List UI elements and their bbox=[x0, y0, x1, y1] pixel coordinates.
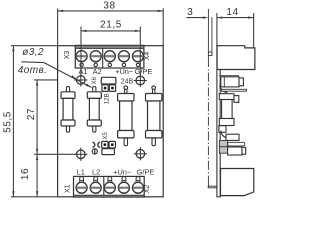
jumper X6 pin 2 bbox=[109, 85, 115, 92]
terminal block X3/X4 side view bbox=[217, 46, 255, 70]
capacitor side view bottom cap bbox=[219, 119, 234, 126]
dimension 14 right extension line bbox=[253, 13, 255, 48]
small rect below cap bbox=[219, 126, 226, 133]
terminal screw X1/X2 pin 3 bbox=[104, 182, 115, 193]
fuse F4 body bbox=[148, 101, 160, 131]
DIN rail top flange bbox=[211, 17, 213, 55]
svg-text:ø3,2: ø3,2 bbox=[22, 47, 44, 58]
dimension 55,5 extension lines bbox=[11, 45, 58, 47]
dimension 21,5 line bbox=[81, 30, 140, 32]
svg-text:A1: A1 bbox=[78, 67, 87, 76]
relay/cap cluster side view upper bbox=[219, 75, 239, 77]
svg-text:12В: 12В bbox=[103, 93, 110, 104]
dimension 16 line bbox=[36, 154, 38, 197]
mounting hole top-right (3.2mm) bbox=[136, 76, 145, 85]
PCB edge (side view) bbox=[217, 46, 220, 197]
fuse F4 top lead bbox=[152, 86, 156, 90]
wire entry notch X1/X2 pin 1 bbox=[80, 177, 84, 181]
DIN rail centerline (dash-dot) bbox=[207, 9, 209, 58]
fuse F1 body bbox=[63, 98, 73, 120]
fuse F3 bottom cap bbox=[118, 131, 134, 138]
svg-text:A2: A2 bbox=[93, 67, 102, 76]
svg-text:4отв.: 4отв. bbox=[18, 65, 47, 76]
fuse F4 bottom cap bbox=[146, 131, 162, 138]
svg-text:+Un−: +Un− bbox=[115, 67, 133, 76]
terminal block X3/X4 body bbox=[75, 45, 144, 68]
terminal screw X1/X2 pin 5 bbox=[133, 182, 144, 193]
mounting hole top-left (3.2mm) bbox=[77, 76, 86, 85]
dimension 21,5 extension lines bbox=[80, 27, 82, 77]
leader line for hole callout bbox=[21, 62, 91, 88]
mounting hole bottom-right (3.2mm) bbox=[136, 150, 145, 159]
terminal screw X1/X2 pin 1 bbox=[76, 182, 87, 193]
dimension 55,5 line bbox=[12, 46, 14, 197]
terminal screw X3/X4 pin 2 bbox=[90, 51, 101, 62]
svg-text:X6: X6 bbox=[91, 76, 98, 84]
wire entry notch X1/X2 pin 2 bbox=[94, 177, 98, 181]
dimension 38 extension lines bbox=[57, 8, 59, 45]
fuse F2 bottom lead bbox=[93, 126, 96, 132]
solder hole below pin 2 bbox=[94, 63, 97, 66]
capacitor side view top cap bbox=[219, 94, 234, 100]
solder hole below pin 3 bbox=[108, 63, 111, 66]
dimension 3 line bbox=[187, 17, 203, 19]
svg-text:G/PE: G/PE bbox=[135, 67, 153, 76]
wire entry notch X1/X2 pin 5 bbox=[136, 177, 140, 181]
wire entry notch X1/X2 pin 4 bbox=[122, 177, 126, 181]
lower strut arc bbox=[221, 131, 228, 138]
svg-text:+Un−: +Un− bbox=[113, 167, 131, 176]
svg-text:21,5: 21,5 bbox=[100, 20, 122, 31]
mounting hole bottom-left (3.2mm) bbox=[77, 150, 86, 159]
long pin bar bbox=[222, 89, 247, 91]
terminal screw X3/X4 pin 5 bbox=[133, 51, 144, 62]
svg-text:27: 27 bbox=[26, 108, 37, 120]
fuse F4 bottom lead bbox=[152, 138, 155, 146]
fuse F1 bottom cap bbox=[61, 120, 75, 126]
svg-text:14: 14 bbox=[226, 7, 238, 18]
fuse F1 top lead bbox=[66, 87, 69, 93]
svg-text:G/PE: G/PE bbox=[137, 167, 155, 176]
terminal screw X3/X4 pin 4 bbox=[118, 51, 129, 62]
thin pin bar lower bbox=[228, 142, 245, 146]
terminal block X1/X2 divider bbox=[103, 176, 105, 195]
svg-text:L1: L1 bbox=[77, 167, 85, 176]
fuse F3 top lead bbox=[124, 86, 128, 90]
svg-text:X4: X4 bbox=[144, 52, 151, 61]
terminal screw X1/X2 pin 4 bbox=[118, 182, 129, 193]
fuse F1 bottom lead bbox=[66, 126, 69, 132]
solder hole below pin 5 bbox=[136, 63, 139, 66]
jumper X6 pin 1 bbox=[102, 85, 108, 92]
terminal screw X3/X4 pin 1 bbox=[76, 51, 87, 62]
small box right of cap bbox=[234, 96, 239, 103]
terminal block X1/X2 side view bbox=[221, 169, 254, 196]
dimension 27 extension line bbox=[34, 79, 57, 81]
terminal screw X3/X4 pin 3 bbox=[104, 51, 115, 62]
fuse F3 top cap bbox=[118, 94, 134, 102]
gray connector blocks bbox=[219, 141, 227, 147]
svg-text:24В: 24В bbox=[121, 79, 134, 86]
jumper X5 cap (parked) bbox=[102, 149, 115, 155]
fuse side view bbox=[228, 147, 242, 155]
terminal screw X1/X2 pin 2 bbox=[90, 182, 101, 193]
svg-text:55,5: 55,5 bbox=[3, 111, 14, 133]
fuse F3 body bbox=[120, 101, 132, 131]
shared extension line at bottom holes bbox=[34, 153, 77, 155]
svg-text:X3: X3 bbox=[64, 51, 71, 60]
terminal block X3/X4 divider bbox=[102, 45, 104, 68]
solder hole below pin 4 bbox=[122, 63, 125, 66]
svg-text:X1: X1 bbox=[64, 184, 71, 193]
svg-text:3: 3 bbox=[187, 7, 193, 18]
fuse F4 top cap bbox=[146, 94, 162, 102]
small white box bbox=[226, 134, 239, 140]
svg-text:16: 16 bbox=[20, 168, 31, 180]
DIN rail bottom foot bbox=[208, 186, 217, 188]
svg-text:X5: X5 bbox=[102, 131, 109, 139]
wire entry notch X1/X2 pin 3 bbox=[108, 177, 112, 181]
jumper X6 cap bbox=[101, 77, 116, 84]
dimension 14 line bbox=[217, 17, 254, 19]
terminal block X3/X4 top gray strip bbox=[75, 45, 144, 48]
silkscreen mark )( near X5 bbox=[93, 142, 95, 148]
svg-text:L2: L2 bbox=[92, 167, 100, 176]
fuse F2 bottom cap bbox=[87, 120, 101, 126]
fuse F2 top cap bbox=[87, 92, 101, 99]
fuse F2 top lead bbox=[93, 87, 96, 93]
dimension 38 line bbox=[58, 10, 164, 12]
svg-text:X2: X2 bbox=[144, 185, 151, 194]
terminal block X1/X2 bottom gray strip bbox=[74, 195, 145, 197]
terminal block X1/X2 body bbox=[74, 176, 145, 197]
jumper X5 pin 1 bbox=[102, 141, 108, 148]
solder hole below pin 1 bbox=[80, 63, 83, 66]
fuse F2 body bbox=[89, 98, 99, 120]
silkscreen mark phi near X5 bbox=[92, 149, 97, 154]
jumper X5 pin 2 bbox=[109, 141, 115, 148]
PCB board outline (front view) bbox=[58, 46, 164, 197]
fuse F1 top cap bbox=[61, 92, 75, 99]
fuse F3 bottom lead bbox=[124, 138, 127, 146]
strut arc bbox=[220, 85, 227, 92]
dimension 27 line bbox=[36, 80, 38, 154]
capacitor side view body bbox=[222, 100, 233, 119]
svg-text:38: 38 bbox=[103, 0, 115, 11]
